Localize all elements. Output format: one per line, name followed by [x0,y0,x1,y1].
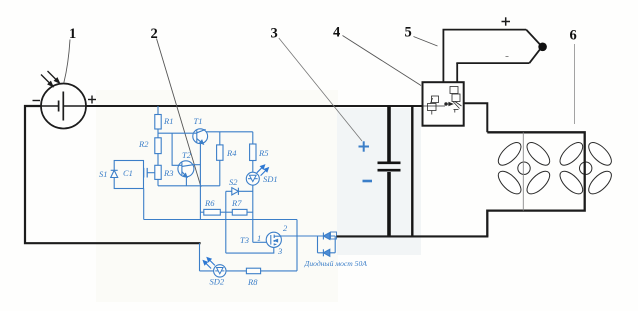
wire: R1 column from top rail [157,106,159,115]
diode S2 wire [226,190,253,192]
zener box S1/C1 loop [114,161,143,189]
resistor R8 [246,268,260,274]
capacitor plates [378,162,401,165]
svg-text:R8: R8 [247,277,258,287]
svg-text:T1: T1 [194,116,203,126]
wire: R6 row [200,211,203,213]
leader 5 [414,37,438,47]
wire: right vertical of storage loop [411,106,413,237]
wire R1-R2 [157,129,159,138]
fan M1 [495,139,554,198]
wire: base rail left of T1 [158,132,194,134]
LED SD2 [214,265,226,277]
resistor R7 [232,209,247,215]
bridge diode D1 [323,233,329,240]
fan enclosure (6) [487,132,584,236]
wire: T3 source return [226,247,274,253]
svg-text:R6: R6 [204,198,215,208]
selection corner mark [331,232,337,239]
svg-text:3: 3 [271,26,278,42]
diode S2 [232,188,239,195]
wire: R4 bottom lead [219,160,221,186]
relay module U4 box [423,82,464,126]
wire: left drop from solar cell [25,106,201,243]
leader 2 [157,39,202,188]
svg-text:1: 1 [257,233,261,243]
fan cell divider [522,132,524,210]
resistor R4 [217,145,223,160]
selection tint rectangle near capacitor [337,108,421,255]
resistor R5 [250,144,256,161]
wire R2-R3 [157,154,159,166]
wire: R6-R7 link [220,211,232,213]
capacitor polarity [359,141,370,151]
leader 3 [279,38,362,141]
resistor R2 [155,138,161,154]
svg-text:T3: T3 [240,235,249,245]
svg-text:R3: R3 [163,168,173,178]
LED SD1 arrows [257,165,269,176]
blue labels [99,116,367,287]
wire: R7 right lead [247,211,253,213]
svg-text:Диодный мост 50А: Диодный мост 50А [304,259,368,268]
svg-text:SD1: SD1 [263,174,278,184]
wire: relay to heater right lead [456,63,458,82]
capacitor bottom lead [387,172,391,237]
wire: controller right edge [296,220,298,271]
resistor R1 [155,115,161,130]
background cream tint over controller area [96,90,338,302]
svg-text:3: 3 [277,246,282,256]
wire: R5 column [252,132,254,144]
solar cell G1 [41,84,86,129]
svg-text:SD2: SD2 [210,277,225,287]
LED SD1 [246,172,259,185]
svg-text:R2: R2 [138,139,149,149]
wire: R8 right lead [261,270,297,272]
capacitor C1 [143,168,145,178]
svg-text:S1: S1 [99,169,108,179]
svg-text:R7: R7 [231,198,242,208]
svg-text:C1: C1 [123,168,133,178]
svg-text:5: 5 [405,25,412,41]
wire: left branch drop to bus [143,189,145,220]
wire: relay output to fan box [464,103,488,132]
wire: T2 emitter drop [185,177,187,186]
wire: bottom LED path [199,243,201,271]
wire: T2 base drop [172,133,178,165]
wire: T1 emitter column down to bus [199,143,201,220]
wire: relay to heater left lead [442,30,444,83]
leader 1 [64,40,70,84]
transistor T3 [266,232,281,247]
svg-text:R5: R5 [258,148,268,158]
heater polarity [502,17,511,25]
capacitor C (storage) top lead [387,106,391,162]
bridge diode D2 [323,249,329,256]
wire: bottom return rail [337,235,489,237]
zener S1 [111,170,118,177]
svg-text:6: 6 [570,28,577,44]
svg-text:4: 4 [333,25,340,41]
svg-text:T2: T2 [182,150,192,160]
wire: collector rail right of T1 [206,131,253,133]
solar polarity signs [33,96,97,104]
wire: long bus [144,219,297,221]
transistor T1 [193,129,208,144]
LED SD2 arrows [203,258,215,269]
wire: S2 left leg down [225,191,227,253]
resistor R3 [155,165,161,179]
wire: R4 column [219,132,221,145]
fan M2 [556,139,615,198]
svg-text:S2: S2 [229,177,238,187]
leader 6 [574,44,576,124]
wire: emitter rail [158,185,220,187]
light arrows into solar cell [41,71,59,86]
wire: T2 collector link [193,164,200,166]
svg-text:R4: R4 [226,148,237,158]
wire: column below SD1 down to gate wire [252,185,254,242]
wire: R5 bottom lead to SD1 [252,161,254,173]
relay module inner symbols [424,87,462,115]
transistor T2 [178,161,194,177]
diode bridge [317,236,319,253]
heater element (5) body [443,30,540,64]
heater tip ball [538,43,547,52]
svg-text:R1: R1 [163,116,173,126]
wire: gate lead to T3 [253,241,267,243]
wire: T3 drain out [280,235,317,237]
resistor R6 [204,209,221,215]
leader 4 [343,36,422,86]
wire: top positive rail [86,105,423,107]
wire R3 bottom [157,179,159,185]
wire: LED path horizontal [200,270,247,272]
